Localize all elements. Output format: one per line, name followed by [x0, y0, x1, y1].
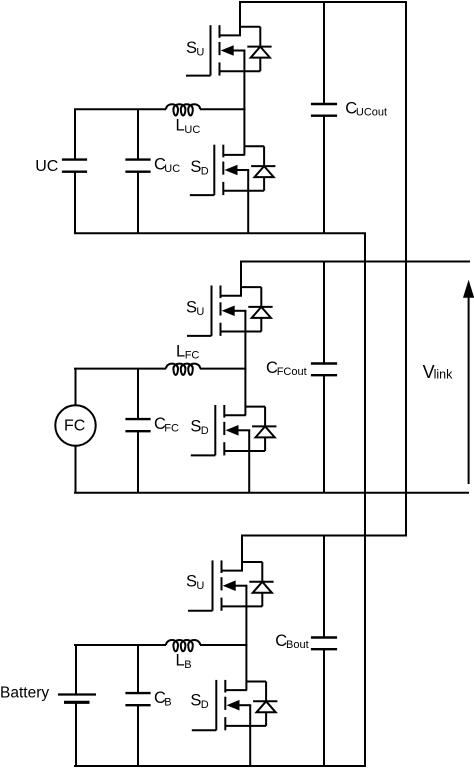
svg-text:FCout: FCout: [277, 366, 307, 378]
svg-text:D: D: [201, 425, 209, 437]
svg-text:U: U: [196, 46, 204, 58]
svg-text:D: D: [201, 165, 209, 177]
svg-text:L: L: [176, 117, 185, 135]
svg-text:FC: FC: [185, 350, 200, 362]
svg-text:D: D: [201, 699, 209, 711]
svg-text:Bout: Bout: [286, 639, 309, 651]
svg-text:S: S: [186, 299, 197, 317]
svg-text:UC: UC: [35, 158, 58, 175]
svg-text:B: B: [184, 659, 191, 671]
svg-text:S: S: [186, 39, 197, 57]
svg-text:FC: FC: [164, 422, 179, 434]
svg-text:UC: UC: [184, 124, 200, 136]
svg-text:UC: UC: [164, 163, 180, 175]
svg-text:B: B: [164, 696, 171, 708]
svg-text:Battery: Battery: [0, 685, 49, 702]
svg-text:link: link: [434, 368, 454, 382]
svg-text:U: U: [196, 580, 204, 592]
svg-text:FC: FC: [64, 417, 85, 434]
svg-text:U: U: [196, 306, 204, 318]
svg-text:UCout: UCout: [356, 107, 387, 119]
svg-text:S: S: [186, 573, 197, 591]
